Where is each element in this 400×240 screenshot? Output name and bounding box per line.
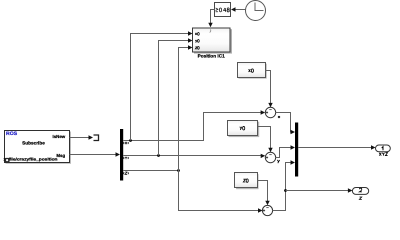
wire Z down to z-sum: [179, 171, 263, 213]
sum y (round): [265, 152, 275, 162]
value label >= 0.48: [216, 8, 230, 12]
compare-to-constant block >= 0.48: [215, 3, 231, 17]
label XYZ: [379, 153, 387, 156]
wire bus X output: [123, 110, 265, 140]
wire bus Y output: [123, 154, 265, 158]
outport 1 XYZ: [376, 145, 391, 156]
sign minus (top input): [269, 154, 271, 156]
junction on X wire: [129, 139, 132, 142]
value label x0: [249, 69, 251, 72]
wire Y riser to y0 port: [159, 38, 193, 155]
svg-text:zyflie/crazyflie_position: zyflie/crazyflie_position: [4, 156, 59, 161]
sum z (round): [262, 205, 272, 215]
svg-text:IsNew: IsNew: [52, 134, 65, 139]
block y0: [228, 121, 260, 138]
clock Clock1: [246, 1, 266, 21]
port label x0: [195, 33, 196, 35]
sign minus (top input): [269, 109, 271, 111]
wire bus Z output: [123, 170, 178, 172]
sign plus (left input): [266, 111, 268, 113]
wire z-sum to mux input 3: [273, 160, 295, 210]
label z: [359, 197, 361, 199]
label y: [277, 160, 279, 163]
sign minus (top input): [266, 207, 268, 209]
signal label <Z>: [124, 172, 129, 174]
trigger symbol: [210, 29, 211, 32]
terminator: [94, 135, 99, 141]
junction on Z wire: [177, 169, 180, 172]
svg-text:Position IC1: Position IC1: [198, 54, 225, 59]
sum x (round): [265, 107, 275, 117]
signal label <Y>: [124, 157, 129, 159]
wire compare output to trigger port of Position IC1: [208, 10, 214, 28]
pin number 2: [359, 188, 362, 192]
port label z0: [195, 47, 197, 49]
svg-text:Subscribe: Subscribe: [22, 141, 45, 146]
pin number 1: [382, 147, 383, 151]
signal label <X>: [124, 142, 129, 144]
wire IsNew to terminator: [70, 135, 94, 139]
wire clock to compare block: [231, 7, 246, 11]
wire X riser to x0 port: [131, 31, 193, 140]
wire Z riser to z0 port: [179, 45, 193, 170]
topic icon: [5, 158, 10, 163]
value label z0: [243, 179, 245, 182]
block x0: [238, 63, 267, 79]
subsystem Position IC1: [193, 28, 233, 59]
junction on z output wire: [284, 189, 287, 192]
mux: [295, 123, 298, 177]
wire Msg to bus selector: [70, 152, 121, 156]
wire y-sum to mux input 2: [276, 145, 295, 157]
wire x0 to x-sum top: [265, 71, 273, 108]
wire junction to outport z: [286, 188, 353, 192]
wire mux output to outport XYZ: [298, 145, 375, 149]
outport 2 z: [352, 188, 368, 200]
svg-text:ROS: ROS: [6, 131, 18, 137]
value label y0: [240, 127, 242, 130]
label x: [278, 116, 280, 118]
svg-text:Msg: Msg: [56, 153, 65, 158]
sign plus (left input): [266, 156, 268, 158]
wire x-sum to mux input 1: [276, 113, 295, 135]
bus selector: [120, 129, 123, 181]
port label y0: [195, 40, 197, 43]
junction on Y wire: [157, 154, 160, 157]
ROS Subscribe block: [4, 131, 72, 164]
block z0: [235, 173, 259, 190]
wire z0 to z-sum top: [257, 181, 270, 206]
wire y0 to y-sum top: [258, 127, 273, 153]
sign plus (left input): [263, 209, 265, 211]
